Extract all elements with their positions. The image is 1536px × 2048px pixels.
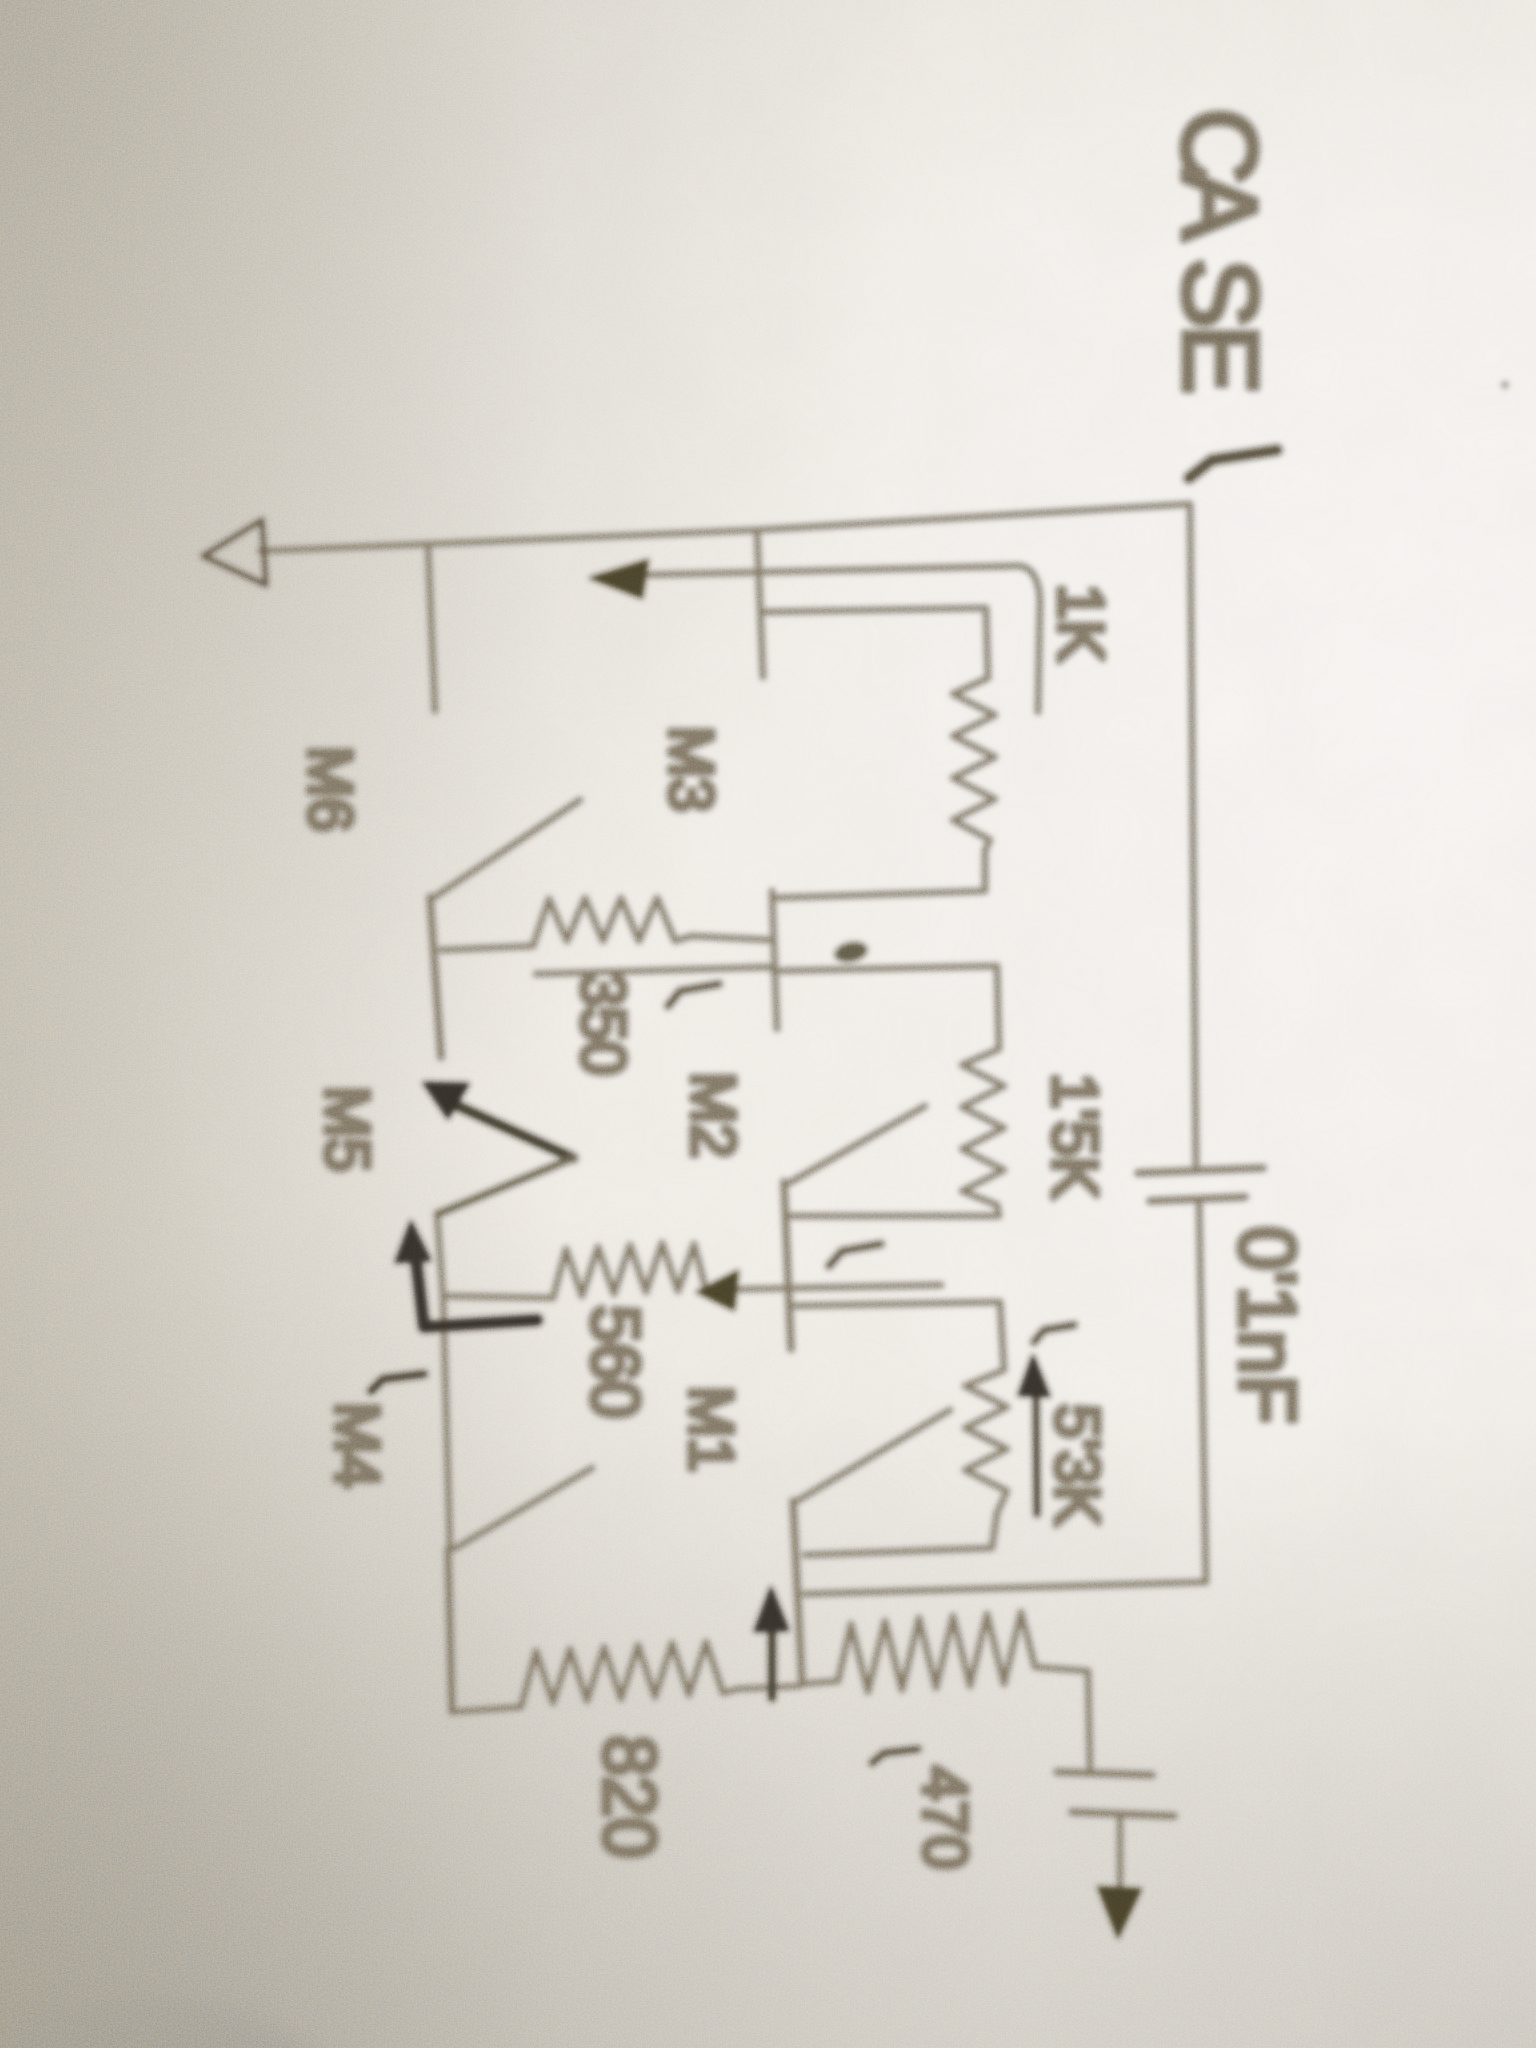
capacitor C2 plate 2	[1072, 1812, 1174, 1816]
wire capacitor to ground	[1117, 1816, 1124, 1890]
capacitor C2 plate 1	[1057, 1772, 1152, 1775]
node M5 arrow lower leg	[438, 1158, 573, 1214]
wire right bus upper	[1190, 504, 1196, 1169]
resistor 1.5K	[962, 1049, 1004, 1205]
node tick 1 near 350	[668, 984, 719, 1006]
wire right bus lower	[1199, 1200, 1206, 1582]
resistor 350	[533, 898, 692, 946]
wire stub from rail to 1K branch	[757, 530, 763, 677]
wire M1 to 5.3K bottom	[805, 1513, 997, 1555]
wire to 1.5K top	[773, 966, 999, 1049]
wire top rail	[260, 504, 1190, 551]
node up arrow at M1 emitter	[768, 1608, 777, 1698]
wire M3 to 350 resistor	[441, 946, 533, 950]
transistor M4 collector diagonal	[454, 1468, 592, 1549]
transistor M4 base bar	[448, 1549, 452, 1712]
wire 560 right lead	[706, 1285, 941, 1290]
wire 1.5K bottom lead to M2	[789, 1205, 999, 1216]
wire 1K top lead	[763, 608, 988, 678]
wire 820 right lead	[738, 1686, 800, 1689]
node 5.3K arrowhead	[1019, 1356, 1049, 1396]
ground arrow	[1098, 1887, 1141, 1938]
transistor M2 collector diagonal	[789, 1106, 925, 1183]
node junction speck	[832, 939, 869, 966]
node thick L arrow near M4	[414, 1242, 537, 1327]
resistor 470	[838, 1612, 1035, 1692]
transistor M3 collector diagonal	[433, 800, 580, 898]
resistor 560	[553, 1243, 706, 1298]
wire node vertical (1K/M3/1.5K junction)	[772, 891, 777, 1029]
node tick 1 near M4	[371, 1374, 424, 1391]
resistor 1K	[953, 678, 995, 850]
wire left node vertical down to M4	[437, 1213, 450, 1549]
wire M4 to 820	[452, 1707, 521, 1712]
wire 1K bottom lead	[772, 850, 985, 898]
node up arrowhead	[755, 1588, 788, 1631]
node arrow at 5.3K	[1036, 1396, 1037, 1514]
terminal arrow M6 (open triangle)	[203, 520, 266, 585]
transistor M1 collector diagonal	[797, 1410, 950, 1501]
node tick 1 near 5.3K	[1034, 1325, 1074, 1342]
wire M2 emitter to 5.3K top	[789, 1302, 1004, 1370]
node arrowhead on 560 lead	[697, 1271, 738, 1310]
node tick 1 near M2	[829, 1244, 881, 1266]
node M5 arrowhead	[424, 1083, 468, 1118]
transistor M1 base bar	[793, 1501, 802, 1684]
node arrowhead on M3 collector line	[590, 560, 648, 598]
wire M6 stub	[428, 546, 435, 711]
transistor M2 base bar	[784, 1182, 791, 1349]
wire 560 left lead	[443, 1296, 553, 1298]
wire M1 bottom to 470	[802, 1681, 838, 1684]
transistor M3 base bar	[430, 897, 441, 1057]
wire 470 to capacitor	[1035, 1667, 1090, 1768]
wire M3 emitter lead	[536, 967, 770, 974]
node thick arrow M5	[438, 1097, 573, 1158]
resistor 5.3K	[965, 1370, 1007, 1513]
wire 350 right lead	[692, 936, 770, 940]
wire M3 collector annotation line	[600, 566, 1040, 712]
node paper speck	[1501, 381, 1509, 389]
dark object bottom-left corner	[0, 2000, 335, 2048]
node tick 1 near 470	[872, 1749, 918, 1763]
node L arrowhead	[396, 1222, 430, 1262]
resistor 820	[521, 1642, 738, 1707]
capacitor 0.1nF plate 1	[1138, 1168, 1263, 1173]
label CASE digit 1	[1189, 450, 1277, 478]
capacitor 0.1nF plate 2	[1150, 1197, 1245, 1201]
wire M1 emitter to bus corner	[805, 1582, 1206, 1594]
